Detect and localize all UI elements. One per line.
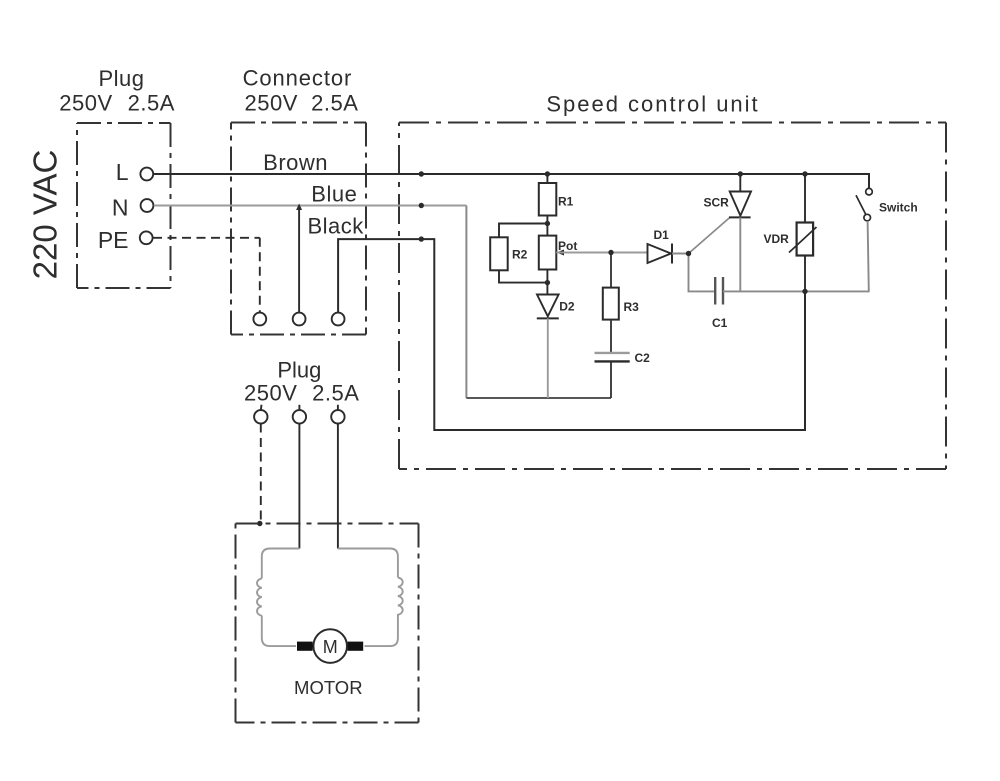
- svg-text:Brown: Brown: [263, 150, 328, 175]
- svg-text:Pot: Pot: [558, 239, 577, 253]
- svg-text:C2: C2: [635, 351, 651, 365]
- svg-text:N: N: [112, 195, 129, 221]
- svg-text:250V: 250V: [59, 91, 112, 116]
- svg-text:Plug: Plug: [277, 358, 321, 383]
- svg-text:VDR: VDR: [764, 232, 790, 246]
- svg-text:L: L: [116, 159, 129, 185]
- svg-text:PE: PE: [98, 227, 129, 253]
- svg-text:Connector: Connector: [243, 66, 353, 91]
- svg-text:2.5A: 2.5A: [128, 91, 175, 116]
- svg-text:2.5A: 2.5A: [311, 91, 358, 116]
- svg-text:R1: R1: [558, 195, 574, 209]
- svg-text:M: M: [323, 637, 338, 657]
- svg-text:2.5A: 2.5A: [312, 381, 359, 406]
- svg-text:SCR: SCR: [704, 196, 730, 210]
- svg-text:R2: R2: [512, 248, 528, 262]
- svg-text:D2: D2: [559, 300, 575, 314]
- svg-text:Plug: Plug: [98, 66, 144, 91]
- svg-text:250V: 250V: [244, 381, 297, 406]
- svg-text:C1: C1: [712, 316, 728, 330]
- svg-text:Switch: Switch: [879, 201, 918, 215]
- svg-text:R3: R3: [624, 300, 640, 314]
- svg-text:Black: Black: [307, 214, 364, 239]
- svg-text:D1: D1: [654, 228, 670, 242]
- svg-text:Speed control unit: Speed control unit: [546, 92, 759, 117]
- svg-text:220 VAC: 220 VAC: [27, 150, 64, 280]
- svg-text:Blue: Blue: [311, 181, 357, 206]
- svg-text:MOTOR: MOTOR: [294, 677, 363, 698]
- svg-text:250V: 250V: [245, 91, 298, 116]
